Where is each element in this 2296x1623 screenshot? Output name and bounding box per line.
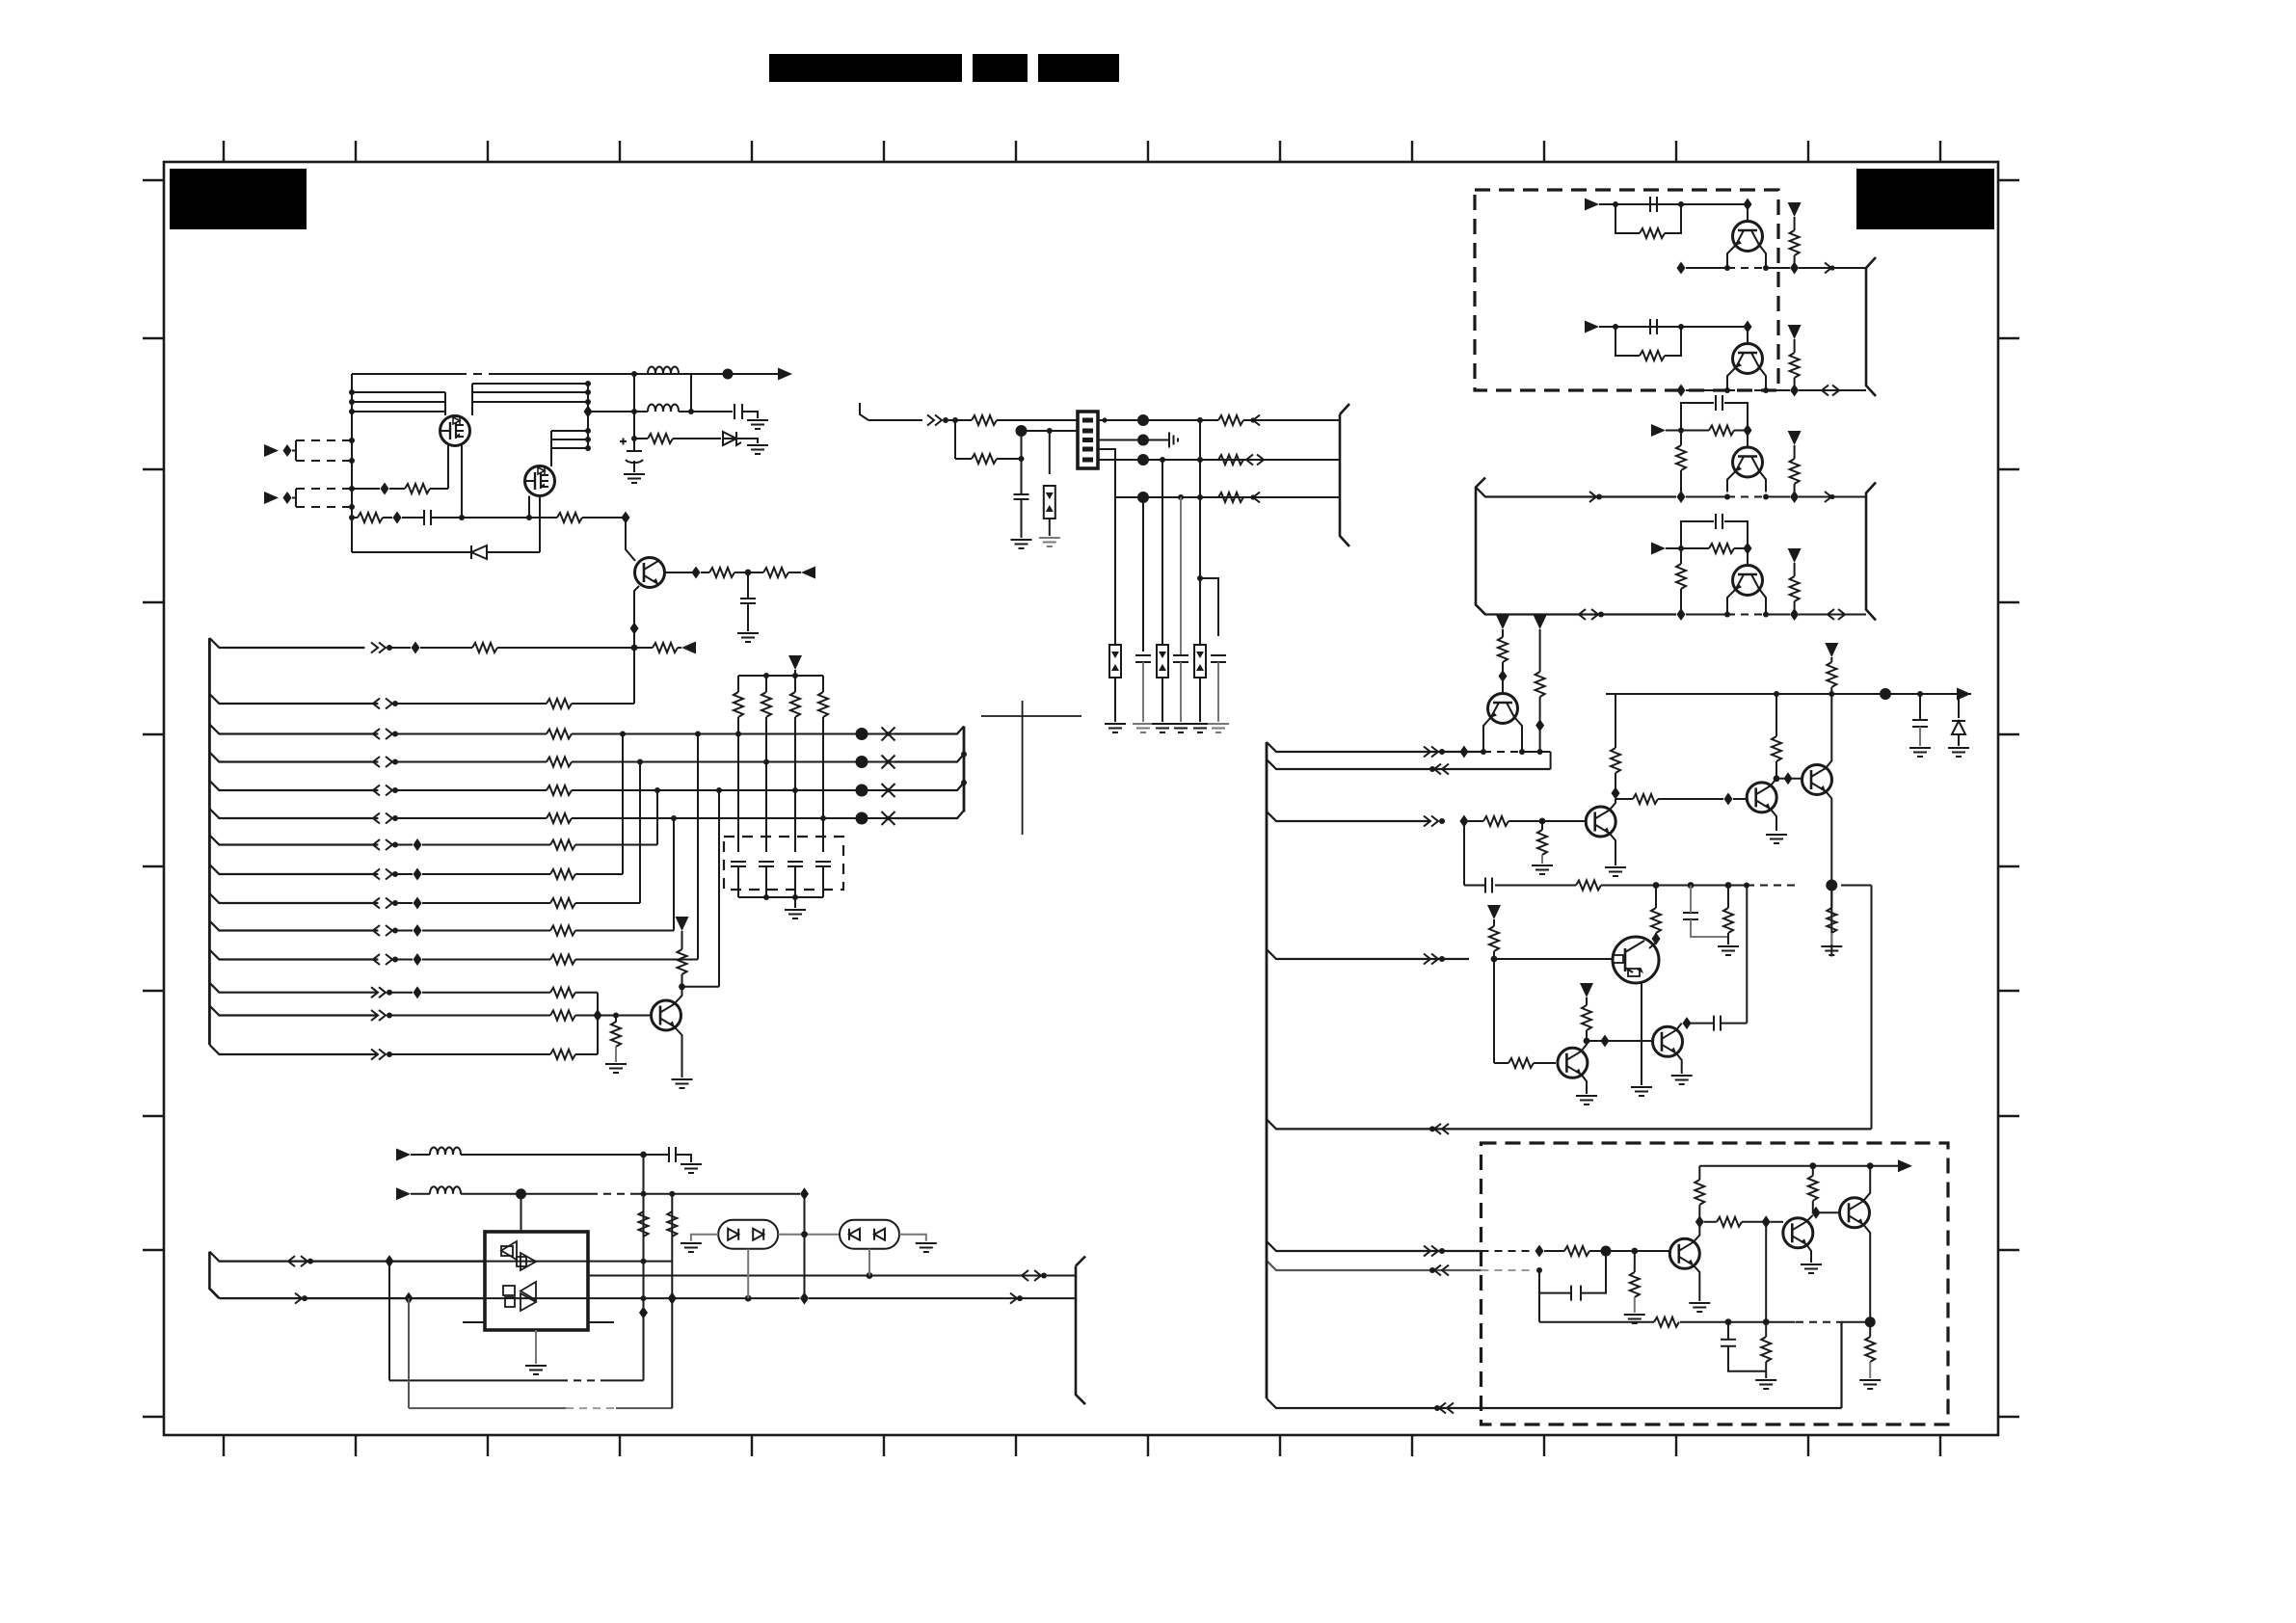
emitter wire [1863,1224,1870,1321]
double arrow row6 [373,813,398,824]
pull resistor R41 [1788,202,1802,264]
node dot [1631,1248,1638,1255]
pin5 exit wire [1098,459,1269,461]
chevrons row12 [371,987,392,998]
resistor R5 [701,568,748,577]
resistor R40 [1640,228,1665,238]
matrix tie wire A [622,734,624,875]
wire into Q18 [1649,943,1656,948]
dashed rail segment [1727,389,1766,391]
diamond [1612,787,1620,800]
rail wire [1686,267,1790,269]
ground [525,1366,547,1374]
double arrow row3 [373,729,398,739]
wire to Q15 base [1508,820,1586,822]
node dot [1536,1267,1542,1273]
buffer A triangles [501,1241,536,1270]
matrix tie wire C [656,790,658,845]
V1 diamond [639,1307,648,1319]
node dots [459,515,532,520]
left bus bar [208,638,211,1045]
resistor R50 [1498,629,1508,672]
arrow left [678,642,696,654]
wire [411,1154,430,1156]
row 995 from bus [1267,949,1469,959]
transistor Q17 [1802,765,1832,795]
matrix tie wire B [639,762,641,904]
IC out row mid [588,1275,1076,1277]
wire [389,647,411,649]
right bus bracket [1340,404,1349,546]
transistor Q14 [1488,694,1518,724]
feedback resistor R76 [1654,1317,1679,1327]
redacted label box top-right [1856,169,1994,229]
wire [738,439,758,443]
diamond rowB right [800,1292,809,1305]
resistor R28 [550,869,575,879]
feed wire into IC [521,1194,522,1232]
resistor RN3 [790,676,800,852]
feedback rail wire [1464,885,1872,887]
input connector J2 pin stub bracket [295,489,297,507]
termination resistor network supply arrow [788,655,802,670]
cell1 input arrow [1585,199,1599,211]
resistor R10 [972,415,997,425]
transistor Q13 [1733,566,1763,596]
diamond [1683,1017,1692,1029]
chevrons row14 [371,1050,392,1060]
wire [572,703,634,705]
right mini bus bar [963,727,966,812]
transistor Q19 [1558,1048,1588,1078]
collector node dot [1774,775,1780,782]
transistor Q15 [1586,807,1615,837]
cap loop above [1681,521,1748,548]
diamond [1677,608,1686,621]
diamond [1535,719,1544,732]
winding bundle right [472,384,588,402]
wire to bus [1799,263,1866,274]
collector wire [1610,799,1615,811]
emitter leg [1727,471,1736,492]
off-page stub [860,403,868,420]
wire row to L2 [588,411,648,412]
node dots bottom row [1725,1318,1770,1325]
resistor R24 [547,758,572,767]
collector leg [1514,717,1522,752]
base wire [616,1015,652,1017]
wire Q2 source lead [528,496,530,519]
diamond [1790,608,1799,621]
wire to bus with double arrow [1799,609,1866,620]
bus hook row4 [894,755,964,762]
diamond row13 [594,1009,602,1022]
pull resistor R49 [1788,548,1802,610]
left chevrons row1461 [1434,1403,1454,1414]
diamond [1744,321,1752,333]
base bleed resistor R71 [1630,1251,1640,1313]
wire dashed J2 pin1 [296,488,352,490]
emitter leg [1727,245,1736,268]
vertical TVS column 3 [1161,460,1163,645]
cut mark row4 [882,756,895,769]
pin3 exit wire [1098,439,1169,441]
bus row 1 entry [209,638,364,648]
wire [396,761,547,763]
capacitor C40 [1571,1286,1581,1301]
ground [1189,724,1211,732]
collector wire [1826,694,1831,768]
resistor R42 [1640,351,1665,360]
cap loop above [1681,403,1748,431]
diamond [1601,1035,1610,1048]
base stem [1747,431,1749,448]
ground [1948,748,1969,757]
diamond [1812,1207,1821,1219]
bus hook row6 [894,811,964,818]
ground [1170,724,1191,732]
capacitor C22 [1716,395,1722,411]
collector leg [1759,589,1766,615]
wire [1161,678,1163,722]
wire [1734,547,1748,549]
dashed rail segment [1727,267,1766,269]
IC ground stem [535,1330,537,1364]
transistor Q12 [1733,447,1763,477]
wire [396,959,413,961]
row B from left bus [219,1297,485,1299]
wire [575,873,623,875]
rail3 from left bus [1476,488,1676,497]
box top rail [1699,1165,1899,1167]
comp resistor R77 [1761,1322,1771,1378]
input arrow 1 [264,444,296,457]
collector chain wire [665,572,692,573]
connector pins [1082,420,1093,460]
wire long row3 [572,733,894,735]
ground [737,633,759,642]
wire to base [1681,326,1748,328]
wire Q1 gate lead [447,445,449,489]
big dot row6 [856,812,868,825]
bus row 2 entry [209,694,378,704]
series cap C31 [1485,878,1492,893]
supply arrow V3 [1825,643,1838,657]
capacitor C50 [669,1147,676,1162]
zener diode D1 [723,432,741,445]
left chevrons row1171 [1429,1124,1449,1134]
box bottom row [1539,1293,1870,1322]
node dots on left rail [349,389,355,520]
alignment crosshair [981,701,1081,835]
resistor R25 [547,785,572,795]
wire with left chevron [1243,492,1340,503]
node dot [1678,428,1684,434]
resistor R14 [1218,492,1243,502]
wire to bus with double arrow [1799,386,1866,396]
V2 resistor R81 [667,1211,677,1237]
emitter wire [1694,1265,1700,1301]
base bleed resistor R53 [1537,821,1547,864]
row 516 wire [1115,496,1269,498]
wire [1539,697,1541,752]
dashed capacitor group box [724,837,843,890]
collector feed resistor R60 [1651,886,1661,936]
IC out row upper [588,1261,672,1263]
node dots [641,1191,676,1197]
wire [1114,678,1116,722]
wire [461,1193,590,1195]
corner to row798 [1550,752,1552,769]
lower RC branch [1615,204,1681,233]
transistor Q22 [1783,1218,1813,1248]
inductor L1 [648,367,679,375]
collector wire [1863,1166,1870,1202]
cut mark row3 [882,728,895,741]
IC side stubs [463,1321,614,1323]
wire row 455 [634,438,648,439]
matrix tie wire E [697,734,699,960]
bus bar right section [1266,742,1268,1398]
dashed enclosure box [1475,190,1778,390]
collector leg [1759,471,1766,492]
capacitor C21 [1650,319,1657,334]
collector resistor R56 [1772,694,1781,779]
wire to Q20 base [1587,1040,1651,1042]
wire down [1021,431,1023,494]
ground [1859,1380,1881,1389]
wire [396,930,413,932]
diamond [1762,1215,1771,1228]
diamond [1535,1245,1544,1258]
transistor Q20 [1653,1026,1683,1056]
diamond [1677,491,1686,503]
series resistor R59 [1576,881,1601,891]
ground [1671,1076,1693,1084]
double arrow out row [1022,1270,1047,1281]
redacted title bar 3 [1038,54,1119,82]
rail4 from left bus [1476,605,1676,615]
junction diamond [692,567,701,579]
wire [1049,519,1051,536]
resistor R47 [1709,544,1734,553]
capacitor CN2 [759,862,774,897]
resistor R31 [550,955,575,965]
arrow rowB [295,1293,307,1304]
transistor Q21 [1669,1238,1699,1268]
wire [389,992,413,994]
wire with left chevron [1243,415,1340,426]
wire [396,902,413,904]
diamond row10 [414,924,422,937]
node dot [688,409,694,414]
diamond [800,1187,809,1200]
node dots [1724,387,1769,393]
electrolytic capacitor C2 [620,439,643,473]
ground [1631,1087,1652,1096]
wire long row5 [572,789,894,791]
rail corner down [1871,886,1873,1130]
bus row 12 entry [209,983,378,993]
cap loop below [1539,1251,1606,1293]
resistor RN2 [761,676,771,852]
left bus bracket G [209,1252,219,1299]
collector resistor R74 [1808,1166,1818,1213]
emitter wire [1581,1075,1587,1094]
double arrow rowA [288,1256,313,1266]
node on top wire [631,371,637,377]
wire to Q16 base [1733,798,1747,800]
out row node dot [867,1272,873,1279]
wire [1666,430,1709,432]
capacitor C23 [1716,514,1722,529]
wire [396,703,547,705]
wire MOSFET Q1 right lead [471,384,473,415]
rail wire [1468,751,1551,753]
resistor R27 [550,840,575,850]
wire to connector [997,419,1078,421]
emitter big dot [1826,880,1837,891]
collector resistor R72 [1695,1166,1704,1217]
ground [1718,946,1739,955]
ground [1133,724,1154,732]
resistor R29 [550,898,575,908]
left chevrons row1318 [1429,1265,1449,1276]
row A from left bus [209,1252,485,1262]
capacitor CN1 [731,862,746,897]
diamond row780 [1459,746,1468,758]
cell4 input arrow [1651,543,1666,555]
V2 diamond [668,1292,677,1305]
wire [1468,820,1483,822]
wire into Q14 base [1502,680,1504,693]
bottom feedback row [1267,1322,1842,1408]
capacitor C3 [424,510,431,525]
wire [1734,430,1748,432]
base stem [1747,327,1749,344]
node dot [952,417,958,423]
bus hook row3 [894,727,964,734]
double arrow row4 [373,757,398,767]
collector wire [1806,1215,1813,1222]
node dots row5 [654,787,798,793]
double arrow row10 [373,925,398,936]
chevrons row1 [371,643,392,653]
riser V1 [643,1155,645,1380]
left drop wire [1493,959,1495,1063]
wire to base [1681,203,1748,205]
base stem [1747,548,1749,566]
grounded resistor on base row [611,1016,621,1063]
rail node dots [1774,691,1923,697]
resistor R11 [955,454,1022,464]
feedback row B2 [409,1407,672,1409]
jog wire [1200,578,1218,636]
wire base row [575,1015,635,1017]
output arrow [778,368,792,381]
interstage resistor R73 [1704,1217,1766,1227]
diamond [1744,424,1752,437]
rotated ground [1169,433,1178,448]
vertical cap column 4 [1180,497,1182,655]
wire [1539,629,1541,672]
output node dot [723,369,734,380]
capacitor C1 [734,404,742,419]
ground [1105,724,1126,732]
wire rowA into IC [393,1261,588,1263]
dashed segment row1298 [1482,1250,1535,1252]
pin2 feed wire [1022,430,1079,432]
bus hook row5 [894,783,964,790]
node dot [1197,417,1203,423]
resistor R26 [547,813,572,823]
double arrow row7 [373,839,398,850]
pull resistor R43 [1788,325,1802,386]
wire [673,438,721,439]
border frame [164,162,1998,1435]
wire [868,419,922,421]
wire [676,1155,691,1162]
wire Q1 lower lead [461,445,463,518]
bus row 7 entry [209,836,378,845]
capacitor C11 [1135,655,1151,722]
node dot [516,1188,526,1199]
chevrons row780 [1424,747,1445,758]
pin1 stub dot [1102,417,1107,422]
resistor R13 [1218,455,1243,465]
stub row 1318 from bus [1267,1261,1482,1270]
wire [411,1193,430,1195]
ground [1208,724,1229,732]
collector wire [1581,1041,1587,1051]
ground [624,474,645,483]
dashed rail segment [1727,614,1766,616]
rail node dots [1809,1162,1873,1169]
rail arrow [1957,688,1971,701]
big dot pin5 [1137,454,1149,466]
supply rail top [1606,693,1960,695]
bleed resistor R61 [1723,886,1733,945]
bundle tie wire [587,384,589,448]
diamond [1784,772,1793,785]
frame ruler ticks right [1998,180,2019,1417]
collector resistor R64 [1580,983,1593,1041]
double arrow row11 [373,954,398,965]
pin1 exit wire [1098,419,1143,421]
inductor L2 [648,405,679,412]
diamond [1652,933,1661,945]
diamond [1790,385,1799,397]
node dot [1613,201,1618,207]
wire [575,1053,598,1055]
rail filter cap C30 [1912,694,1928,746]
node dots pin5 row [1160,457,1203,463]
resistor R21 [653,643,678,652]
right bus bracket cells12 [1866,257,1876,396]
wire [422,873,550,875]
wire Q2 drain to diode row [539,496,541,553]
big dot row516 [1137,492,1149,503]
diamond [1744,199,1752,211]
resistor R23 [547,730,572,739]
node dots on mini bus [961,752,967,786]
stub row 1298 from bus [1267,1241,1482,1251]
inductor L4 [430,1186,461,1194]
inductor L3 [430,1148,461,1156]
IC out row B continue [485,1297,1076,1299]
TVS diode pair [1109,645,1121,678]
wire dashed J1 pin2 [296,460,352,462]
